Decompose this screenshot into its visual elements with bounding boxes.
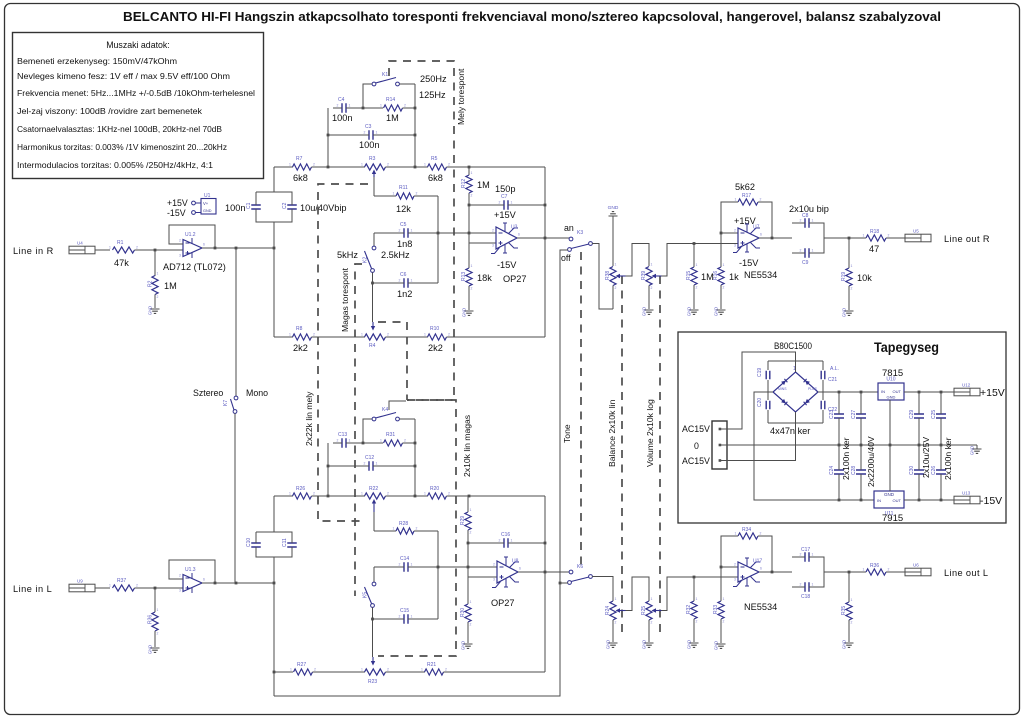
wire R24 bottom to ground xyxy=(612,620,614,642)
svg-text:K7: K7 xyxy=(223,400,229,406)
svg-text:2: 2 xyxy=(448,163,450,167)
svg-text:AC15V: AC15V xyxy=(682,456,710,466)
svg-text:C3: C3 xyxy=(365,124,372,130)
wire R19 to ground xyxy=(848,286,850,310)
svg-text:GND: GND xyxy=(842,640,847,649)
wire -input node to R16 xyxy=(720,233,722,267)
svg-text:R30: R30 xyxy=(460,608,466,617)
svg-text:Line in R: Line in R xyxy=(13,246,54,256)
svg-text:C29: C29 xyxy=(909,410,915,419)
resistor R15 1M xyxy=(691,267,697,285)
capacitor C14 xyxy=(404,562,408,572)
resistor R36b 47 xyxy=(866,569,886,575)
svg-text:1: 1 xyxy=(424,333,426,337)
svg-text:Harmonikus torzitas: 0.003% /1: Harmonikus torzitas: 0.003% /1V kimenosz… xyxy=(17,143,227,152)
wire OP27 L output to K6 xyxy=(518,571,569,573)
capacitor C4 100n xyxy=(342,103,346,113)
svg-text:Line in L: Line in L xyxy=(13,584,52,594)
svg-text:-15V: -15V xyxy=(167,208,186,218)
svg-text:1: 1 xyxy=(651,263,653,267)
svg-text:Bemeneti erzekenyseg: 150mV/47: Bemeneti erzekenyseg: 150mV/47kOhm xyxy=(17,57,177,66)
wire bass cap branch left vertical xyxy=(327,108,329,167)
wire U9 to R37 xyxy=(95,587,110,589)
connector U4 (Line in R) xyxy=(69,246,95,254)
wire to NE5534 -input xyxy=(721,232,738,234)
resistor R14 1M xyxy=(384,105,403,111)
svg-text:GND: GND xyxy=(970,446,975,455)
svg-text:Line out R: Line out R xyxy=(944,234,990,244)
svg-text:1: 1 xyxy=(470,508,472,512)
switch K6 (tone an/off L) xyxy=(569,570,573,574)
svg-text:Tone: Tone xyxy=(562,424,572,443)
svg-text:2: 2 xyxy=(723,620,725,624)
wire U1.3 output xyxy=(202,582,274,584)
svg-text:2: 2 xyxy=(760,532,762,536)
svg-text:U1.3: U1.3 xyxy=(185,567,196,573)
svg-text:10k: 10k xyxy=(857,273,872,283)
wire C15 row y=619 xyxy=(373,618,402,620)
svg-text:3: 3 xyxy=(734,578,736,582)
wire 7815 GND pin xyxy=(889,400,891,445)
resistor R18 47 xyxy=(866,235,886,241)
svg-text:R3: R3 xyxy=(369,156,376,162)
svg-text:2: 2 xyxy=(888,568,890,572)
svg-text:GND: GND xyxy=(714,307,719,316)
svg-text:GND: GND xyxy=(608,205,619,211)
svg-text:R38: R38 xyxy=(605,271,611,280)
svg-text:2: 2 xyxy=(364,462,366,466)
svg-text:6: 6 xyxy=(519,567,521,571)
wire K5 bottom contact down xyxy=(372,608,374,620)
svg-text:2: 2 xyxy=(470,623,472,627)
svg-text:3: 3 xyxy=(734,244,736,248)
svg-text:7915: 7915 xyxy=(882,513,903,524)
svg-text:IN: IN xyxy=(881,389,885,394)
svg-text:2: 2 xyxy=(448,492,450,496)
resistor R2 1M xyxy=(152,276,158,295)
wire R36 to ground xyxy=(154,631,156,647)
svg-text:2: 2 xyxy=(399,563,401,567)
svg-text:6k8: 6k8 xyxy=(428,173,443,183)
resistor R36 1M xyxy=(152,612,158,631)
connector U12 xyxy=(954,388,980,396)
svg-text:C24: C24 xyxy=(829,466,835,475)
svg-text:C8: C8 xyxy=(802,213,809,219)
svg-text:1: 1 xyxy=(511,201,513,205)
svg-text:1: 1 xyxy=(863,568,865,572)
potentiometer R22 (mely) xyxy=(365,493,386,499)
wire mono switch upper xyxy=(235,248,237,396)
wire stub to ground xyxy=(976,445,978,449)
svg-text:Line out L: Line out L xyxy=(944,568,988,578)
svg-text:2: 2 xyxy=(723,286,725,290)
wire to R32 xyxy=(693,577,695,601)
svg-text:GND: GND xyxy=(642,640,647,649)
svg-text:2: 2 xyxy=(734,229,736,233)
svg-text:2x100n ker: 2x100n ker xyxy=(841,437,851,480)
svg-text:C21: C21 xyxy=(828,377,837,383)
wire 1n8 row to K2 top contact xyxy=(373,233,375,246)
svg-text:1: 1 xyxy=(723,263,725,267)
svg-text:NE5534: NE5534 xyxy=(744,270,777,280)
wire L network corner to bypass rail xyxy=(273,672,275,696)
wire top tone row y=167 xyxy=(274,166,293,168)
capacitor C18 xyxy=(805,582,809,592)
capacitor C23 xyxy=(834,414,844,418)
svg-text:1: 1 xyxy=(376,131,378,135)
svg-text:Magas torespont: Magas torespont xyxy=(340,267,350,332)
pot R3 wiper arrow xyxy=(373,173,375,178)
ground below R24 xyxy=(609,643,618,647)
wire C4/R14 row y=108 xyxy=(333,107,339,109)
pot R22 wiper arrow xyxy=(373,502,375,512)
resistor R7 6k8 xyxy=(293,164,312,170)
ground below R25 xyxy=(645,643,654,647)
wire R1 to U1.2 +input, node A xyxy=(135,249,184,251)
svg-text:1: 1 xyxy=(851,264,853,268)
svg-text:Muszaki adatok:: Muszaki adatok: xyxy=(106,40,170,50)
svg-text:NE5534: NE5534 xyxy=(744,602,777,612)
svg-text:R13: R13 xyxy=(461,272,467,281)
svg-text:Nevleges kimeno fesz: 1V eff /: Nevleges kimeno fesz: 1V eff / max 9.5V … xyxy=(17,72,230,81)
wire C13/R31 row y=443 xyxy=(333,442,339,444)
svg-text:2: 2 xyxy=(399,279,401,283)
svg-text:R15: R15 xyxy=(686,271,692,280)
wire C12 row y=466 xyxy=(328,465,366,467)
wire K6 common to balance pot L xyxy=(592,577,613,602)
wire K2 node down to pot R4 wiper xyxy=(372,283,374,322)
svg-text:1: 1 xyxy=(696,263,698,267)
wire NE5534 L output xyxy=(759,571,792,573)
cap C29 10u xyxy=(918,392,920,411)
svg-text:OP27: OP27 xyxy=(491,598,515,608)
svg-text:GND: GND xyxy=(887,395,896,400)
svg-text:IN: IN xyxy=(877,498,881,503)
svg-text:R12: R12 xyxy=(461,179,467,188)
ground below R15 xyxy=(690,310,699,314)
svg-text:2: 2 xyxy=(800,219,802,223)
svg-text:1k: 1k xyxy=(729,272,739,282)
svg-text:1: 1 xyxy=(511,539,513,543)
wire R33 to ground xyxy=(720,619,722,643)
resistor R10 2k2 xyxy=(428,334,447,340)
svg-text:C13: C13 xyxy=(338,432,347,438)
svg-text:2k2: 2k2 xyxy=(293,343,308,353)
svg-text:2: 2 xyxy=(445,668,447,672)
wire R29/R30 vertical x=468 xyxy=(467,496,469,512)
dashed mechanical link K2-K5 (Magas torespont) xyxy=(355,264,362,596)
svg-text:1: 1 xyxy=(361,163,363,167)
svg-text:R39: R39 xyxy=(641,271,647,280)
svg-text:1: 1 xyxy=(393,527,395,531)
svg-text:GND: GND xyxy=(461,641,466,650)
smoothing cap C23 100n xyxy=(838,392,840,411)
svg-text:2x22k lin mely: 2x22k lin mely xyxy=(304,391,314,446)
svg-text:12k: 12k xyxy=(396,204,411,214)
svg-text:1: 1 xyxy=(109,584,111,588)
wire L bass branch right vertical xyxy=(414,419,416,496)
resistor R8 2k2 xyxy=(293,334,312,340)
svg-text:2: 2 xyxy=(734,563,736,567)
spec box (Muszaki adatok) xyxy=(13,33,264,179)
svg-text:MINS: MINS xyxy=(778,387,787,391)
svg-text:2: 2 xyxy=(800,249,802,253)
svg-text:BELCANTO HI-FI Hangszin atka: BELCANTO HI-FI Hangszin atkapcsolhato to… xyxy=(123,9,941,24)
wire ground to R38 top xyxy=(612,216,614,266)
svg-text:1: 1 xyxy=(393,192,395,196)
svg-text:3: 3 xyxy=(179,589,181,593)
smoothing cap C27 2200u xyxy=(860,392,862,411)
wire 150p row y=205 xyxy=(469,204,501,206)
svg-text:2: 2 xyxy=(651,286,653,290)
wire network right edge x=545 xyxy=(544,167,546,337)
ground xyxy=(609,212,618,216)
wire R5 to network right edge xyxy=(447,166,546,168)
wire cap box bottom to U1.2 output node xyxy=(273,222,275,248)
svg-text:5k62: 5k62 xyxy=(735,182,755,192)
svg-text:Balance 2x10k lin: Balance 2x10k lin xyxy=(607,399,617,467)
wire R3 to R5 xyxy=(386,166,429,168)
power supply box xyxy=(678,332,1006,523)
wire bottom row y=672 of L network xyxy=(274,671,293,673)
svg-text:2: 2 xyxy=(157,632,159,636)
svg-text:C17: C17 xyxy=(801,547,810,553)
svg-text:PLUS: PLUS xyxy=(808,387,818,391)
wire cap box to R18 xyxy=(824,237,866,239)
wire 1n2 row y=283 xyxy=(373,282,402,284)
wire K6 off contact to bypass rail xyxy=(560,582,568,584)
svg-text:2: 2 xyxy=(416,192,418,196)
cap C30 10u xyxy=(918,445,920,467)
svg-text:U17: U17 xyxy=(753,559,762,565)
resistor R34 xyxy=(738,533,758,539)
wire R39 bottom to ground xyxy=(648,286,650,310)
svg-text:R36: R36 xyxy=(870,563,879,569)
svg-text:R8: R8 xyxy=(296,326,303,332)
svg-text:C16: C16 xyxy=(501,532,510,538)
resistor R5 6k8 xyxy=(428,164,447,170)
svg-text:2: 2 xyxy=(651,621,653,625)
svg-text:K1: K1 xyxy=(382,72,388,78)
wire OP27 output to switch K3 xyxy=(517,237,569,239)
svg-text:Mono: Mono xyxy=(246,388,268,398)
wire feedback left xyxy=(721,202,738,233)
svg-text:Mely torespont: Mely torespont xyxy=(456,68,466,125)
svg-text:2: 2 xyxy=(615,286,617,290)
svg-text:R1: R1 xyxy=(117,240,124,246)
svg-text:C7: C7 xyxy=(501,194,508,200)
dashed gang link R4-R23 (2x10k lin magas) xyxy=(378,322,407,400)
svg-text:R33: R33 xyxy=(713,605,719,614)
svg-text:GND: GND xyxy=(884,492,895,497)
resistor R29 xyxy=(465,512,471,530)
svg-text:2x2200u/40V: 2x2200u/40V xyxy=(866,436,876,487)
svg-text:R26: R26 xyxy=(296,486,305,492)
svg-text:1: 1 xyxy=(471,171,473,175)
wire AC bottom pin to bridge xyxy=(720,412,796,461)
svg-text:1: 1 xyxy=(349,439,351,443)
svg-text:C6: C6 xyxy=(400,272,407,278)
ground below R2 xyxy=(151,309,160,313)
svg-text:R28: R28 xyxy=(399,521,408,527)
wire U1.3 feedback loop xyxy=(169,560,215,583)
svg-text:OUT: OUT xyxy=(893,389,902,394)
wire K3 off contact to bypass rail xyxy=(274,250,568,696)
svg-text:C12: C12 xyxy=(365,455,374,461)
op-amp U1.3 triangle xyxy=(183,575,202,592)
wire to K1 left contact xyxy=(363,84,372,108)
svg-text:U8: U8 xyxy=(512,559,519,565)
svg-text:2: 2 xyxy=(448,333,450,337)
svg-text:6: 6 xyxy=(760,567,762,571)
svg-text:1: 1 xyxy=(696,597,698,601)
svg-text:R7: R7 xyxy=(296,156,303,162)
capacitor C2 xyxy=(287,205,297,209)
svg-text:GND: GND xyxy=(714,641,719,650)
svg-text:1M: 1M xyxy=(386,113,399,123)
wire to R15 xyxy=(693,244,695,268)
wire 0V rail xyxy=(720,444,977,446)
wire C16 row y=543 xyxy=(468,542,501,544)
capacitor C30 xyxy=(914,470,924,474)
capacitor C26 xyxy=(936,470,946,474)
wire R2 to ground xyxy=(154,295,156,309)
wire feedback left L xyxy=(721,536,738,567)
ground below R13 xyxy=(465,311,474,315)
svg-text:100n: 100n xyxy=(332,113,352,123)
svg-text:1: 1 xyxy=(615,597,617,601)
svg-text:C26: C26 xyxy=(931,466,937,475)
Balance dashed gang link xyxy=(621,276,623,633)
svg-text:C10: C10 xyxy=(246,538,252,547)
svg-text:2: 2 xyxy=(136,584,138,588)
resistor R11 12k xyxy=(396,193,414,199)
svg-text:1: 1 xyxy=(812,583,814,587)
svg-text:OP27: OP27 xyxy=(503,274,527,284)
svg-text:GND: GND xyxy=(606,640,611,649)
wire C3 row y=135 xyxy=(328,134,366,136)
ground below R36 xyxy=(151,648,160,652)
svg-text:Tapegyseg: Tapegyseg xyxy=(874,340,939,355)
wire U4 to R1 xyxy=(95,249,110,251)
dashed mechanical link K3-K6 (Tone) xyxy=(580,252,582,566)
dashed gang link R3-R22 (2x22k lin mely) xyxy=(318,184,368,521)
svg-text:K4: K4 xyxy=(382,407,388,413)
wire 1n8 row y=233 to OP27 -input xyxy=(374,232,401,234)
svg-text:2: 2 xyxy=(399,615,401,619)
svg-text:2: 2 xyxy=(471,287,473,291)
op-amp U17 NE5534 L xyxy=(738,562,759,582)
svg-text:K5: K5 xyxy=(363,592,369,598)
svg-text:1: 1 xyxy=(735,532,737,536)
svg-text:C5: C5 xyxy=(400,222,407,228)
svg-text:R18: R18 xyxy=(870,229,879,235)
svg-text:C2: C2 xyxy=(282,202,288,209)
svg-text:B80C1500: B80C1500 xyxy=(774,341,812,351)
wire R38 bottom xyxy=(612,286,614,310)
svg-text:C27: C27 xyxy=(851,410,857,419)
svg-text:1n8: 1n8 xyxy=(397,239,412,249)
capacitor C13 xyxy=(342,438,346,448)
svg-text:6: 6 xyxy=(203,578,205,582)
svg-text:C14: C14 xyxy=(400,556,409,562)
resistor R35 xyxy=(846,602,852,620)
svg-text:GND: GND xyxy=(148,306,153,315)
svg-text:1: 1 xyxy=(863,234,865,238)
cap C25 100n xyxy=(940,392,942,411)
svg-text:1: 1 xyxy=(651,597,653,601)
svg-text:10u/40Vbip: 10u/40Vbip xyxy=(300,203,347,213)
svg-text:2: 2 xyxy=(337,104,339,108)
svg-text:R20: R20 xyxy=(430,486,439,492)
resistor R26 xyxy=(293,493,312,499)
svg-text:4x47n ker: 4x47n ker xyxy=(770,426,810,436)
wire C14 row to K5 top contact xyxy=(373,567,375,582)
capacitor C3 100n xyxy=(369,130,373,140)
wire L network right edge xyxy=(544,496,546,672)
svg-text:GND: GND xyxy=(842,308,847,317)
svg-text:U9: U9 xyxy=(77,579,83,584)
svg-text:1: 1 xyxy=(380,104,382,108)
capacitor C28 xyxy=(856,470,866,474)
svg-text:2: 2 xyxy=(800,553,802,557)
regulator U10 7815 box xyxy=(878,383,904,400)
ground below R32 xyxy=(690,643,699,647)
svg-text:R16: R16 xyxy=(713,271,719,280)
op-amp U8 OP27 xyxy=(497,561,518,583)
pot R38 wiper arrow xyxy=(619,275,626,277)
svg-text:1: 1 xyxy=(411,563,413,567)
potentiometer R3 (mely) xyxy=(365,164,386,170)
svg-text:1: 1 xyxy=(421,668,423,672)
wire feedback right xyxy=(758,202,772,238)
wire U1.2 output to coupling cap node xyxy=(202,247,274,249)
capacitor C16 xyxy=(504,538,508,548)
svg-text:C30: C30 xyxy=(909,466,915,475)
capacitor C1 xyxy=(251,205,261,209)
svg-text:U12: U12 xyxy=(962,383,971,388)
svg-text:6k8: 6k8 xyxy=(293,173,308,183)
wire minus rail xyxy=(754,392,874,500)
pot R4 wiper arrow xyxy=(372,322,374,328)
svg-text:-15V: -15V xyxy=(497,260,517,270)
bridge rectifier B80C1500 xyxy=(768,361,823,423)
svg-text:2: 2 xyxy=(399,229,401,233)
capacitor C7 150p xyxy=(504,200,508,210)
svg-text:C19: C19 xyxy=(757,368,763,377)
svg-text:1: 1 xyxy=(157,608,159,612)
wire U1.2 feedback loop xyxy=(169,225,215,248)
pot R25 wiper arrow xyxy=(655,610,662,612)
wire cap box top to tone row xyxy=(273,167,275,192)
svg-text:K2: K2 xyxy=(363,257,369,263)
potentiometer R25 volume L xyxy=(646,601,652,620)
ground below R19 xyxy=(845,311,854,315)
svg-text:R29: R29 xyxy=(460,516,466,525)
wire R39 wiper to NE5534 +input xyxy=(662,244,739,277)
svg-text:47: 47 xyxy=(869,244,879,254)
wire network left edge x=274 xyxy=(273,248,275,337)
bridge diamond with diodes xyxy=(773,372,818,412)
svg-text:5kHz: 5kHz xyxy=(337,250,358,260)
wire -input node to R33 xyxy=(720,567,722,601)
svg-text:1: 1 xyxy=(109,246,111,250)
ground below R30 xyxy=(464,644,473,648)
svg-text:150p: 150p xyxy=(495,184,515,194)
wire OP27 L +input row xyxy=(468,576,497,578)
svg-text:C23: C23 xyxy=(829,410,835,419)
svg-text:GND: GND xyxy=(148,645,153,654)
